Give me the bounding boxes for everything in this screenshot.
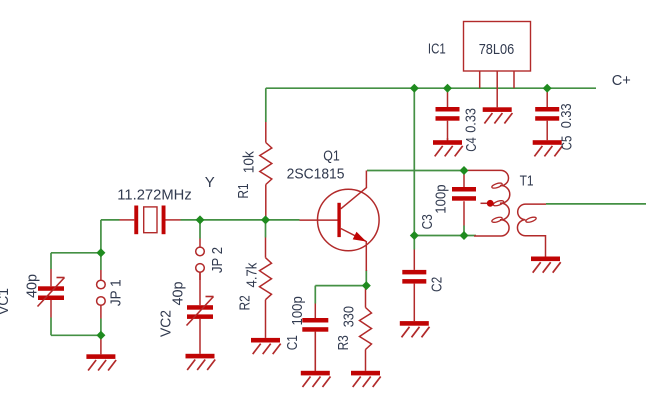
svg-text:R2: R2 [237, 295, 254, 310]
junction top wire / C4 [443, 84, 452, 93]
svg-text:11.272MHz: 11.272MHz [117, 187, 191, 204]
junction VC1/JP1 bottom node [96, 331, 105, 340]
svg-text:78L06: 78L06 [479, 41, 515, 58]
svg-text:T1: T1 [520, 173, 534, 190]
svg-text:R1: R1 [235, 183, 252, 198]
capacitor C5 0.33 [535, 88, 559, 140]
label JP 1 (vertical) [108, 279, 125, 306]
label 100p of C3 (vertical) [433, 184, 450, 213]
wire vertical net x=414 from top wire down to C2 node [413, 88, 415, 235]
label 330 (vertical) [341, 306, 358, 327]
svg-text:4.7k: 4.7k [244, 262, 261, 287]
wire emitter node vertical [365, 270, 367, 286]
label C2 (vertical) [429, 277, 446, 292]
transformer T1 primary winding [468, 170, 510, 236]
capacitor C2 [402, 250, 426, 322]
svg-text:C+: C+ [612, 72, 631, 89]
wire JP2 node drop [199, 220, 201, 239]
label 2SC1815 [287, 166, 345, 183]
junction VC1/JP1 top node [96, 248, 105, 257]
jumper JP2 [196, 239, 205, 281]
ground C4 [433, 138, 463, 156]
junction bottom wire / C2 [410, 231, 419, 240]
label 0.33 of C4 (vertical) [463, 108, 480, 133]
svg-text:0.33: 0.33 [558, 103, 575, 128]
svg-text:2SC1815: 2SC1815 [287, 166, 345, 183]
wire emitter node to C1 top [315, 286, 366, 304]
label 40p of VC2 (vertical) [169, 282, 186, 306]
IC1 pin middle (gnd) [496, 71, 498, 107]
svg-text:10k: 10k [240, 151, 257, 174]
resistor R1 10k [260, 122, 272, 220]
svg-text:0.33: 0.33 [463, 108, 480, 133]
label Y [205, 174, 215, 191]
wire collector horizontal net y=170 [367, 170, 464, 172]
ground C2 [400, 321, 430, 337]
svg-text:100p: 100p [433, 184, 450, 213]
svg-text:40p: 40p [24, 274, 41, 298]
wire JP1 bottom to node [100, 319, 102, 336]
ground VC2 [186, 354, 216, 370]
wire top horizontal net VCC from R1 to C+ [266, 87, 596, 89]
ground C5 [533, 140, 563, 156]
label 100p of C1 (vertical) [289, 296, 306, 325]
svg-text:C5: C5 [559, 136, 576, 151]
label VC1 (vertical) [0, 288, 12, 315]
IC1 pin right (output) [513, 71, 515, 88]
wire C3 bottom segment [463, 226, 465, 236]
label 10k (vertical) [240, 151, 257, 174]
svg-text:JP 2: JP 2 [209, 247, 226, 273]
label C1 (vertical) [284, 335, 301, 350]
junction crystal right / JP2 [196, 215, 205, 224]
junction base node / R1 R2 [261, 215, 270, 224]
wire R2 top drop [265, 220, 267, 238]
svg-text:Q1: Q1 [323, 148, 340, 165]
svg-text:VC2: VC2 [158, 310, 175, 337]
capacitor C3 100p [452, 171, 476, 226]
label JP 2 (vertical) [209, 247, 226, 273]
label T1 [520, 173, 534, 190]
junction top wire / C5 [543, 84, 552, 93]
transistor Q1 2SC1815 NPN [300, 171, 380, 272]
ground R3 [351, 371, 381, 387]
wire T1 secondary output net to right edge [546, 203, 646, 205]
label 0.33 of C5 (vertical) [558, 103, 575, 128]
svg-text:C3: C3 [419, 214, 436, 229]
label C4 (vertical) [463, 137, 480, 152]
capacitor C1 100p [302, 304, 328, 371]
label R1 (vertical) [235, 183, 252, 198]
svg-text:JP 1: JP 1 [108, 279, 125, 306]
label 40p of VC1 (vertical) [24, 274, 41, 298]
junction collector wire / C3 / T1 primary [460, 166, 469, 175]
label R2 (vertical) [237, 295, 254, 310]
ground C1 [301, 332, 331, 387]
wire crystal right to Q1 base net [181, 219, 300, 221]
svg-text:C2: C2 [429, 277, 446, 292]
resistor R2 4.7k [260, 238, 272, 338]
svg-text:C4: C4 [463, 137, 480, 152]
ground R2 [251, 338, 281, 354]
label C3 (vertical) [419, 214, 436, 229]
ground T1 secondary [531, 257, 561, 273]
svg-text:330: 330 [341, 306, 358, 327]
variable capacitor VC2 40p [187, 272, 214, 354]
variable capacitor VC1 40p [38, 269, 65, 318]
svg-text:Y: Y [205, 174, 215, 191]
svg-text:IC1: IC1 [428, 40, 446, 57]
label R3 (vertical) [335, 335, 352, 350]
junction bottom wire / C3 / T1 [460, 231, 469, 240]
wire C2 top segment [413, 236, 415, 250]
op-amp regulator IC1 78L06 box [464, 22, 531, 72]
wire crystal left to VC1/JP1 node [101, 220, 120, 253]
svg-text:R3: R3 [335, 335, 352, 350]
transformer T1 center tap with dot [481, 200, 495, 207]
IC1 pin left (input) [479, 71, 481, 88]
jumper JP1 [97, 270, 106, 319]
label Q1 [323, 148, 340, 165]
label 78L06 [479, 41, 515, 58]
label C5 (vertical) [559, 136, 576, 151]
svg-text:C1: C1 [284, 335, 301, 350]
crystal Y 11.272MHz [120, 206, 181, 235]
resistor R3 330 [360, 286, 372, 371]
label VC2 (vertical) [158, 310, 175, 337]
wire node down to JP1 top [100, 253, 102, 270]
svg-text:40p: 40p [169, 282, 186, 306]
label C+ [612, 72, 631, 89]
label 4.7k (vertical) [244, 262, 261, 287]
svg-text:100p: 100p [289, 296, 306, 325]
transformer T1 secondary winding [517, 204, 546, 256]
ground IC1 middle pin [483, 107, 513, 123]
capacitor C4 0.33 [436, 88, 460, 140]
wire bottom horizontal net y=235 C2/C3 node [414, 235, 476, 237]
svg-text:VC1: VC1 [0, 288, 12, 315]
label IC1 [428, 40, 446, 57]
wire VC1 bottom to JP1 bottom node [51, 318, 101, 336]
junction emitter node / C1 R3 [362, 281, 371, 290]
junction top wire / vertical net [410, 84, 419, 93]
wire R1 top lead drop [265, 88, 267, 122]
wire node down-left to VC1 top [51, 253, 101, 269]
ground JP1/VC1 node [86, 335, 116, 370]
label 11.272MHz [117, 187, 191, 204]
